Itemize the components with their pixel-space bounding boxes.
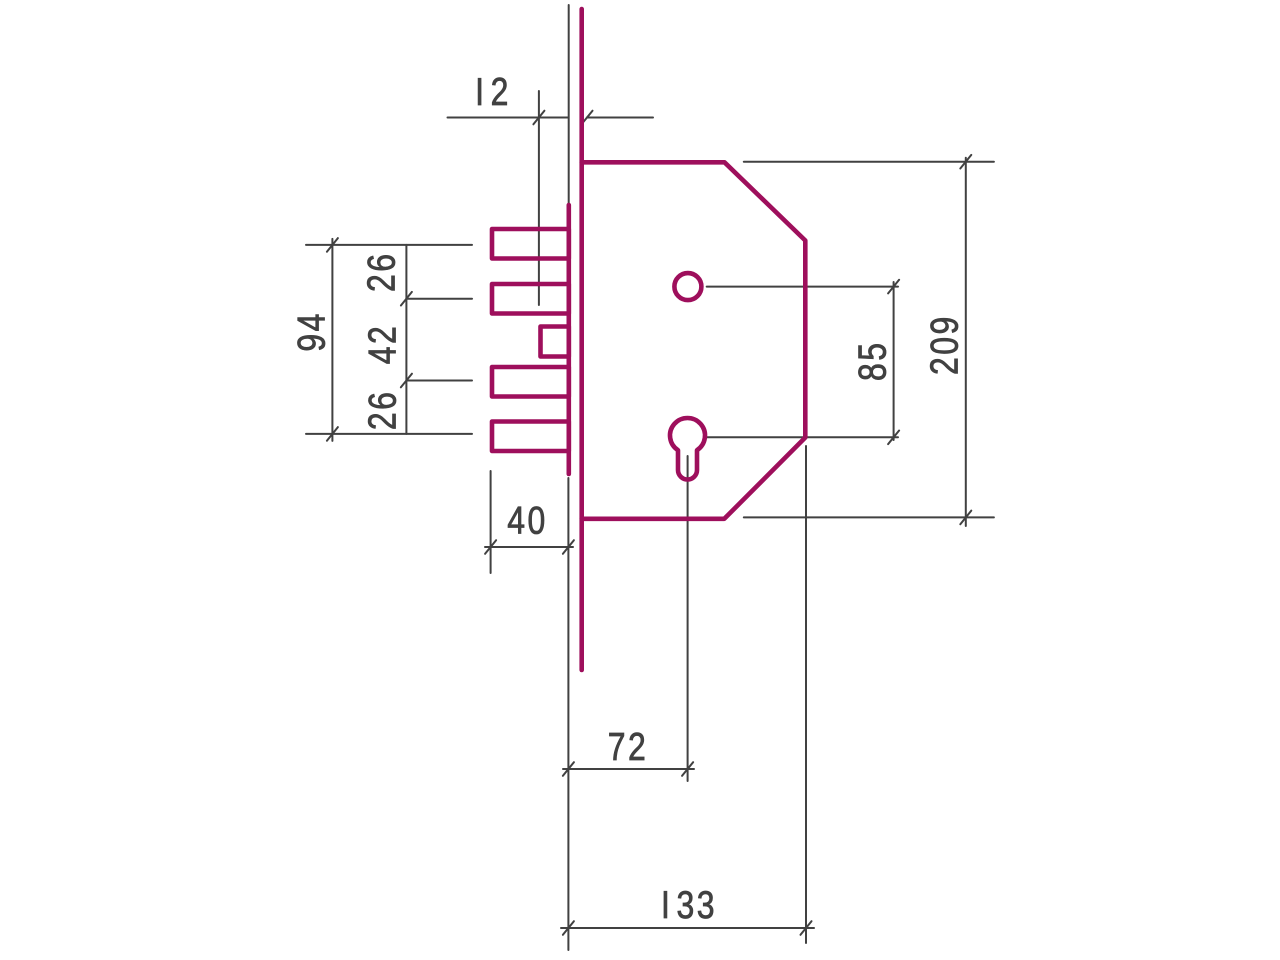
tick 94 bottom xyxy=(327,427,338,441)
dimension line 133 xyxy=(561,927,814,929)
label 209 xyxy=(923,314,967,375)
dimension line 94 xyxy=(331,239,333,441)
tick 12 left xyxy=(533,111,544,125)
tick 40 left xyxy=(485,540,496,554)
keyhole xyxy=(670,418,705,479)
label 94 xyxy=(289,311,333,351)
svg-text:I2: I2 xyxy=(475,70,511,114)
tick 94 top xyxy=(327,238,338,252)
tick 40 right xyxy=(563,540,574,554)
extension line 209 top xyxy=(744,161,994,163)
faceplate vertical line xyxy=(579,9,584,670)
extension line 209 bottom xyxy=(744,516,994,518)
tick 133 right xyxy=(801,921,812,935)
svg-text:94: 94 xyxy=(289,311,333,351)
tick 85 top xyxy=(888,280,899,294)
svg-text:26: 26 xyxy=(360,390,404,430)
extension line circle to 85 xyxy=(707,286,898,288)
extension line for 12 dim xyxy=(538,91,540,305)
dimension line 72 xyxy=(563,768,694,770)
extension line bolt4 center xyxy=(306,433,472,435)
svg-text:42: 42 xyxy=(360,324,404,364)
svg-text:40: 40 xyxy=(507,499,547,543)
label 26 bottom xyxy=(360,390,404,430)
svg-text:209: 209 xyxy=(923,314,967,375)
svg-text:72: 72 xyxy=(608,725,648,769)
label 26 top xyxy=(360,252,404,292)
tick 72 left xyxy=(563,762,574,776)
label 42 xyxy=(360,324,404,364)
extension line bolt2 center xyxy=(406,298,472,300)
extension line keyhole vertical xyxy=(687,456,689,781)
case front edge vertical line xyxy=(566,205,571,474)
dimension line 12 xyxy=(448,117,569,119)
extension line 40 left xyxy=(490,471,492,573)
label 40 xyxy=(507,499,547,543)
extension line bolt1 center xyxy=(306,244,472,246)
extension line long left vertical xyxy=(567,478,569,950)
tick 85 bottom xyxy=(888,431,899,445)
tick 209 top xyxy=(960,155,971,169)
dimension line 85 xyxy=(893,282,895,440)
extension line keyhole to 85 xyxy=(707,436,899,438)
extension line top vertical xyxy=(568,5,570,205)
dimension line 209 xyxy=(965,158,967,526)
tick 42/26 xyxy=(401,374,412,388)
svg-text:85: 85 xyxy=(850,340,894,380)
tick 26/42 xyxy=(401,292,412,306)
dimension line 40 xyxy=(485,546,573,548)
svg-text:26: 26 xyxy=(360,252,404,292)
tick 209 bottom xyxy=(960,511,971,525)
lock body outline xyxy=(582,162,806,519)
latch xyxy=(541,327,569,357)
label 85 xyxy=(850,340,894,380)
spindle hole circle xyxy=(674,273,701,300)
tick 72 right xyxy=(682,762,693,776)
tick 133 left xyxy=(563,921,574,935)
bolt 4 xyxy=(492,422,569,452)
extension line bolt3 center xyxy=(406,380,472,382)
label 72 xyxy=(608,725,648,769)
bolt 2 xyxy=(492,284,569,314)
bolt 1 xyxy=(492,229,569,259)
tick 12 right xyxy=(582,111,593,125)
extension line 133 right vertical xyxy=(805,446,807,943)
dimension line 26/42/26 xyxy=(405,245,407,434)
bolt 3 xyxy=(492,367,569,397)
svg-text:I33: I33 xyxy=(661,883,717,927)
label 12 xyxy=(475,70,511,114)
label 133 xyxy=(661,883,717,927)
